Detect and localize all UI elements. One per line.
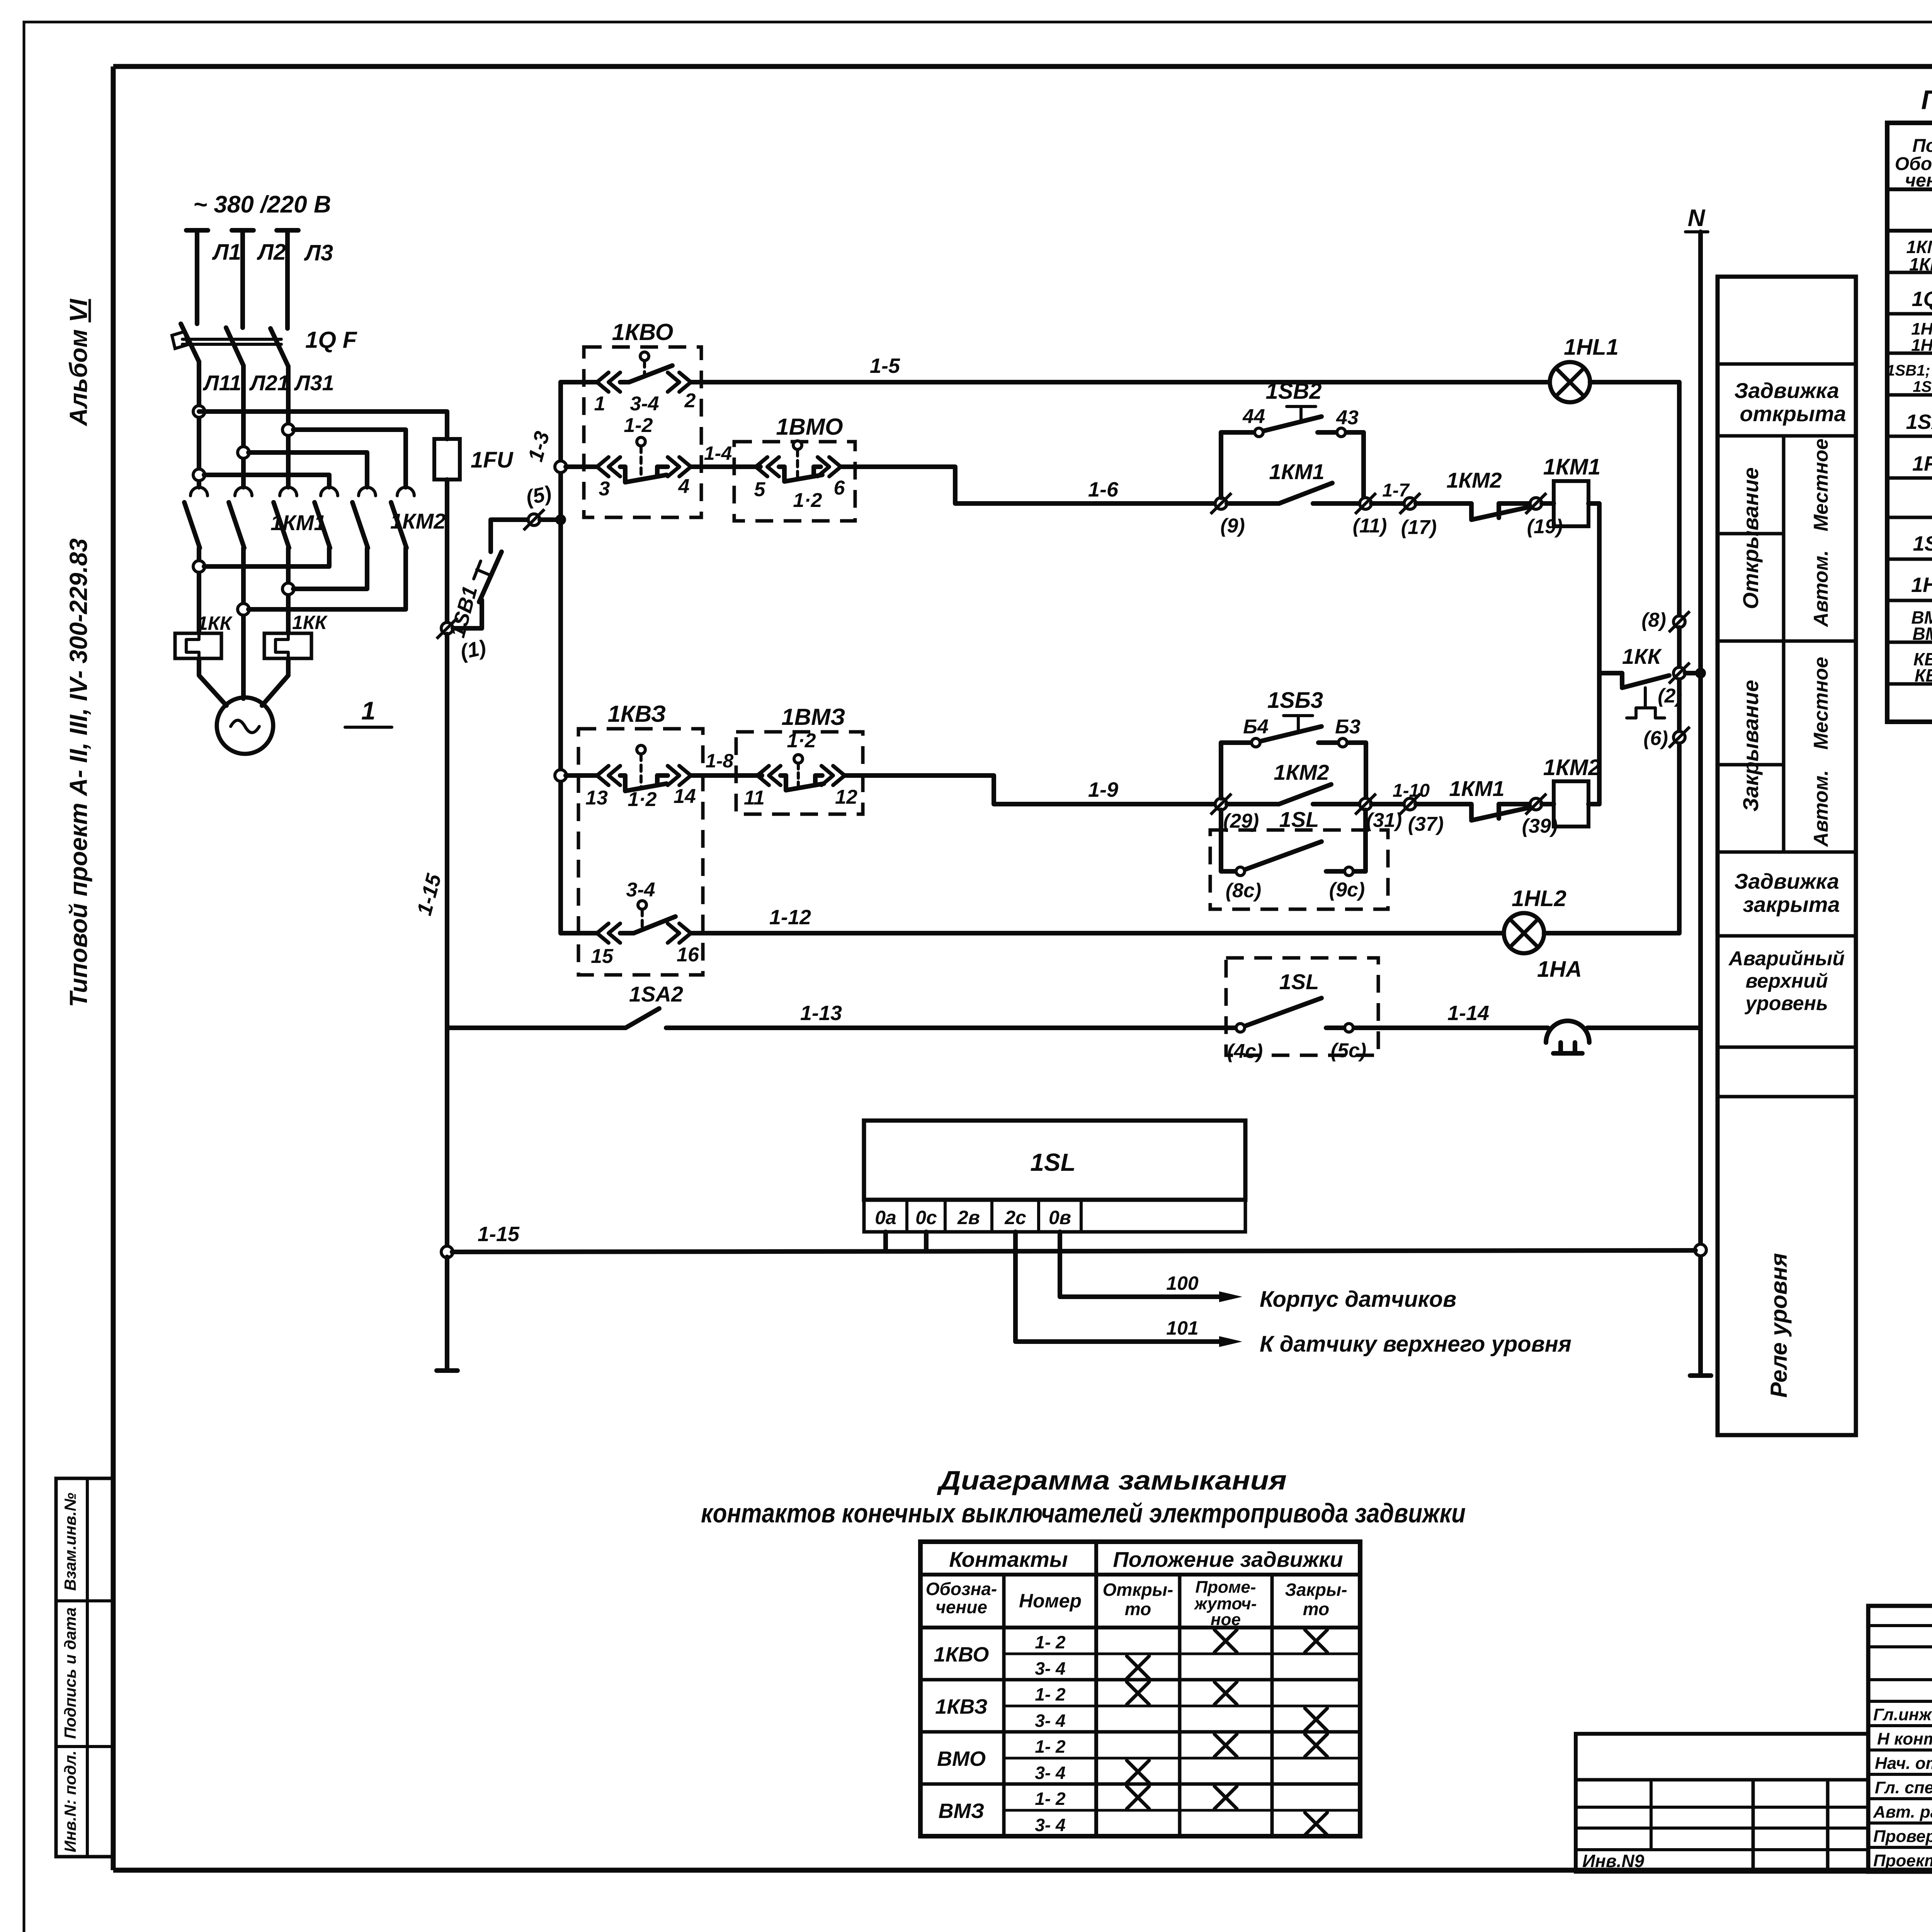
terminal (31) [1355, 794, 1402, 832]
svg-text:чение: чение [935, 1597, 987, 1617]
N bus [1685, 205, 1711, 1376]
svg-text:N: N [1688, 205, 1706, 231]
terminal (17) [1400, 493, 1437, 539]
signature table [1868, 1606, 1932, 1872]
terminal (9) [1211, 493, 1245, 537]
svg-text:Гл.инж.пр.: Гл.инж.пр. [1873, 1705, 1932, 1724]
svg-text:12: 12 [835, 786, 857, 808]
wire to fuse [199, 412, 447, 439]
svg-text:16: 16 [677, 944, 699, 966]
svg-text:КВЗ: КВЗ [1915, 665, 1932, 685]
svg-text:Нач. отд.: Нач. отд. [1875, 1754, 1932, 1773]
thermal relay 1KK element A [175, 612, 233, 658]
svg-text:открыта: открыта [1740, 401, 1846, 426]
svg-text:1-9: 1-9 [1088, 778, 1118, 801]
svg-text:(8): (8) [1641, 609, 1666, 631]
svg-text:(9): (9) [1220, 515, 1245, 537]
terminal (8) [1641, 609, 1690, 632]
node merge pole5 [282, 583, 294, 595]
svg-text:Л31: Л31 [294, 371, 334, 395]
svg-text:6: 6 [834, 477, 845, 499]
svg-text:1FU: 1FU [1912, 452, 1932, 475]
wire 1-15 left riser [445, 634, 449, 1252]
svg-text:Контакты: Контакты [949, 1547, 1068, 1571]
svg-text:1SL: 1SL [1030, 1148, 1075, 1176]
svg-text:Инв.N9: Инв.N9 [1582, 1851, 1645, 1871]
svg-text:Открывание: Открывание [1738, 467, 1763, 609]
svg-text:1КМ1: 1КМ1 [1449, 776, 1504, 801]
svg-text:1КМ2: 1КМ2 [1909, 254, 1932, 274]
contact 1KVZ 3-4 [561, 879, 699, 968]
svg-text:1SБ3: 1SБ3 [1913, 378, 1932, 395]
svg-text:Диаграмма замыкания: Диаграмма замыкания [937, 1465, 1287, 1495]
svg-text:то: то [1125, 1599, 1151, 1619]
limit switch 1KVZ box [578, 701, 703, 975]
wire control bus [558, 382, 563, 933]
node L1 fuse tap [193, 406, 205, 417]
svg-text:то: то [1303, 1599, 1329, 1619]
node L2 crossover tap [238, 447, 249, 458]
wire terminal 0a stub [883, 1232, 888, 1251]
svg-text:3- 4: 3- 4 [1035, 1763, 1065, 1783]
svg-text:1- 2: 1- 2 [1035, 1789, 1066, 1809]
svg-text:15: 15 [591, 945, 614, 968]
svg-text:1НL1: 1НL1 [1564, 335, 1619, 360]
wire 1-5 top rail [777, 354, 1550, 382]
contact 1KVZ 1-2 [566, 745, 696, 811]
svg-text:Аварийный: Аварийный [1728, 947, 1845, 970]
svg-text:1·2: 1·2 [793, 489, 822, 512]
svg-text:1КВО: 1КВО [934, 1643, 989, 1666]
svg-text:1-6: 1-6 [1088, 478, 1119, 501]
wire 1-14 label [1447, 1002, 1489, 1025]
wire 101 upper level sensor [1015, 1232, 1571, 1357]
level relay contact 1SL box [1210, 807, 1388, 909]
svg-text:Автом.: Автом. [1810, 770, 1832, 848]
wire label 1-15 vertical [413, 871, 446, 918]
microswitch 1VMZ box [736, 704, 863, 814]
svg-text:44: 44 [1242, 405, 1265, 428]
wire phase L1 drop [195, 231, 199, 324]
svg-text:(9с): (9с) [1329, 879, 1365, 901]
svg-text:2: 2 [684, 389, 696, 412]
svg-text:1QF: 1QF [1912, 287, 1932, 311]
svg-text:0с: 0с [915, 1207, 937, 1228]
svg-text:1SВ2: 1SВ2 [1265, 379, 1321, 404]
svg-text:2с: 2с [1004, 1207, 1026, 1228]
svg-text:ВМЗ: ВМЗ [1912, 624, 1932, 644]
svg-text:1КК: 1КК [292, 612, 328, 633]
svg-text:Б3: Б3 [1335, 716, 1361, 738]
contact 1KM1 break [1416, 776, 1530, 820]
wire lamp2 to riser [1544, 931, 1679, 935]
svg-text:Л21: Л21 [249, 371, 289, 395]
svg-text:1НL2: 1НL2 [1512, 886, 1566, 911]
svg-text:Номер: Номер [1019, 1590, 1082, 1612]
node bus feed [555, 514, 566, 525]
wire to bus [540, 517, 561, 522]
terminal (19) [1526, 493, 1563, 538]
wire KM2 pole5 return [293, 548, 367, 589]
wire 1-4 [691, 442, 760, 467]
table title [1921, 85, 1932, 115]
wire L11 drop [197, 362, 201, 487]
contact 1KM2 aux [1227, 760, 1360, 804]
svg-text:1·2: 1·2 [787, 730, 816, 752]
svg-text:Закры-: Закры- [1285, 1580, 1347, 1600]
node merge pole6 [238, 604, 249, 615]
CLOSURE DIAGRAM TABLE [701, 1465, 1466, 1836]
svg-text:Альбом VI: Альбом VI [65, 299, 92, 427]
wire lamp riser mid [1677, 628, 1682, 933]
svg-text:Л11: Л11 [202, 371, 241, 395]
node rung3 tap [555, 770, 566, 781]
contact 1KM2 break [1416, 468, 1530, 520]
svg-text:4: 4 [678, 475, 690, 498]
svg-text:Л1: Л1 [212, 240, 241, 265]
svg-text:(17): (17) [1401, 516, 1437, 539]
svg-text:(11): (11) [1353, 515, 1387, 537]
svg-text:11: 11 [744, 787, 765, 809]
svg-text:1КМ2: 1КМ2 [390, 509, 446, 533]
margin stamp boxes [56, 1478, 113, 1857]
svg-text:Обозна-: Обозна- [926, 1579, 997, 1599]
svg-text:~ 380 /220 В: ~ 380 /220 В [193, 191, 331, 218]
vertical margin captions [65, 299, 92, 1007]
svg-text:Проме-: Проме- [1195, 1578, 1256, 1597]
wire coil return riser [1588, 503, 1599, 804]
svg-text:1-2: 1-2 [624, 414, 653, 437]
svg-text:Местное: Местное [1810, 657, 1832, 750]
svg-text:(2): (2) [1658, 685, 1682, 707]
wire lamp to corner [1590, 382, 1679, 616]
level relay contact 1SL alarm box [1226, 958, 1378, 1055]
motor M [217, 697, 273, 754]
svg-text:0в: 0в [1049, 1207, 1071, 1228]
ROW LABEL STRIP [1718, 277, 1856, 1435]
svg-text:Перечень элементов принципиа: Перечень элементов принципиальной схемы. [1921, 85, 1932, 115]
svg-text:(8с): (8с) [1226, 879, 1261, 902]
terminal (37) [1400, 794, 1444, 835]
svg-text:Автом.: Автом. [1810, 550, 1832, 628]
wire heater to motor [199, 658, 288, 706]
svg-text:1SB1; 1SB2,: 1SB1; 1SB2, [1886, 362, 1932, 379]
svg-text:3- 4: 3- 4 [1035, 1658, 1065, 1679]
terminal (29) [1211, 794, 1259, 832]
svg-text:Проверил: Проверил [1873, 1827, 1932, 1846]
svg-text:3-4: 3-4 [626, 879, 655, 901]
wire L31 drop [286, 366, 291, 487]
svg-text:Гл. спец.: Гл. спец. [1875, 1778, 1932, 1797]
wire phase L2 drop [240, 231, 245, 328]
supply label 380/220V [193, 191, 331, 218]
svg-text:1КК: 1КК [1622, 644, 1662, 668]
svg-text:1-8: 1-8 [706, 750, 733, 772]
svg-text:1-14: 1-14 [1447, 1002, 1489, 1025]
svg-text:1SА2: 1SА2 [629, 982, 683, 1006]
svg-text:1- 2: 1- 2 [1035, 1684, 1066, 1704]
wire L2 to KM2 pole 5 [248, 452, 367, 487]
svg-text:5: 5 [754, 478, 766, 501]
thermal relay 1KK element B [264, 612, 328, 658]
node labels L11 L21 L31 [202, 371, 334, 395]
svg-text:Задвижка: Задвижка [1734, 378, 1839, 403]
contactor 1KM2 poles [315, 487, 446, 548]
wire left riser tail [437, 1257, 457, 1371]
terminal (11) [1353, 493, 1387, 537]
wire 1-9 [845, 776, 1216, 804]
svg-text:3: 3 [599, 478, 610, 500]
svg-text:1-13: 1-13 [800, 1002, 842, 1025]
table grid [1887, 123, 1932, 722]
svg-text:Б4: Б4 [1243, 716, 1269, 738]
wire 1-8 [691, 750, 762, 776]
svg-text:1- 2: 1- 2 [1035, 1736, 1066, 1757]
node merge pole4 [193, 561, 205, 572]
bell 1HA [1537, 957, 1701, 1053]
svg-text:(6): (6) [1643, 727, 1668, 750]
terminal (5) [524, 481, 554, 530]
svg-text:1КМ2: 1КМ2 [1446, 468, 1502, 492]
fuse 1FU [434, 439, 514, 622]
svg-text:1SL: 1SL [1913, 532, 1932, 555]
breaker 1QF [172, 324, 357, 366]
contactor 1KM1 poles [184, 487, 326, 548]
svg-text:1КВЗ: 1КВЗ [608, 701, 666, 727]
svg-text:1SБ3: 1SБ3 [1267, 688, 1323, 713]
svg-text:1-15: 1-15 [478, 1223, 520, 1246]
svg-text:1- 2: 1- 2 [1035, 1632, 1066, 1652]
node rail to bus [1695, 1244, 1706, 1256]
level sensor unit 1SL [864, 1121, 1245, 1232]
contact 1SL alarm [1227, 998, 1548, 1063]
node rung2 tap [555, 461, 566, 473]
phase terminal ticks [186, 228, 298, 233]
svg-text:1-5: 1-5 [870, 354, 900, 378]
svg-text:0а: 0а [875, 1207, 896, 1228]
svg-text:Задвижка: Задвижка [1734, 869, 1839, 893]
svg-text:1·2: 1·2 [628, 788, 656, 811]
svg-text:ВМО: ВМО [937, 1747, 986, 1770]
wire phase L3 drop [285, 231, 290, 328]
wire L21 drop [241, 366, 246, 487]
svg-text:Типовой проект А- II, III, I: Типовой проект А- II, III, IV- 300-229.8… [65, 538, 92, 1007]
wire L1 to KM2 pole 4 [204, 475, 329, 487]
limit switch 1KVO box [584, 319, 701, 517]
svg-text:Подпись и дата: Подпись и дата [61, 1607, 79, 1739]
svg-text:101: 101 [1166, 1317, 1198, 1339]
svg-text:1ВМО: 1ВМО [776, 414, 843, 440]
pushbutton 1SB3 branch [1221, 688, 1366, 798]
svg-text:Взам.инв.№: Взам.инв.№ [61, 1493, 79, 1591]
pushbutton 1SB1 [446, 520, 529, 640]
svg-text:верхний: верхний [1745, 970, 1828, 992]
wire 1-7 [1371, 480, 1410, 503]
motor label 1 [345, 696, 392, 727]
wire 1-12 rail [691, 906, 1504, 933]
svg-text:Н контр: Н контр [1877, 1730, 1932, 1748]
svg-text:1SL: 1SL [1279, 807, 1319, 832]
svg-text:Закрывание: Закрывание [1738, 680, 1763, 812]
svg-text:1НА: 1НА [1911, 573, 1932, 597]
wire 1-6 [841, 467, 1216, 503]
thermal contact 1KK [1599, 644, 1669, 718]
svg-text:ное: ное [1211, 1610, 1241, 1629]
svg-text:1НА: 1НА [1537, 957, 1582, 982]
wire label 1-3 [524, 429, 554, 464]
svg-text:Поз.: Поз. [1912, 136, 1932, 156]
terminal (39) [1522, 794, 1558, 837]
svg-text:закрыта: закрыта [1743, 892, 1840, 917]
wire to N bus [1685, 671, 1701, 675]
svg-text:Авт. разд.: Авт. разд. [1873, 1803, 1932, 1821]
svg-text:1Q F: 1Q F [305, 327, 357, 353]
svg-text:2в: 2в [957, 1207, 980, 1228]
svg-text:43: 43 [1336, 406, 1359, 429]
svg-text:(5с): (5с) [1331, 1039, 1366, 1062]
wire L3 to KM2 pole 6 [293, 430, 406, 487]
contact 1VMO 1-2 [754, 441, 845, 512]
terminal (2) [1658, 663, 1690, 707]
svg-text:(37): (37) [1408, 813, 1444, 835]
svg-text:Л2: Л2 [257, 240, 286, 265]
svg-text:1КК: 1КК [197, 612, 233, 634]
svg-text:ВМЗ: ВМЗ [939, 1799, 985, 1823]
svg-text:1-12: 1-12 [769, 906, 811, 929]
svg-text:100: 100 [1166, 1272, 1199, 1294]
svg-text:Откры-: Откры- [1103, 1580, 1173, 1600]
svg-text:1FU: 1FU [471, 447, 514, 473]
node labels L1 L2 L3 [212, 240, 333, 265]
lamp 1HL1 [1550, 335, 1619, 402]
svg-text:1КМ2: 1КМ2 [1274, 760, 1329, 784]
svg-text:1: 1 [361, 696, 376, 725]
svg-text:3- 4: 3- 4 [1035, 1815, 1065, 1835]
svg-text:3-4: 3-4 [630, 393, 659, 415]
wire KM2 pole6 return [248, 548, 406, 609]
svg-text:Положение задвижки: Положение задвижки [1113, 1547, 1343, 1571]
node L3 crossover tap [282, 424, 294, 435]
svg-text:13: 13 [585, 787, 608, 809]
svg-text:чение: чение [1905, 170, 1932, 191]
wire 100 sensor body [1060, 1232, 1456, 1312]
terminal (1) [437, 618, 488, 664]
svg-text:1SL: 1SL [1279, 969, 1319, 994]
svg-text:1КМ1: 1КМ1 [1269, 459, 1324, 484]
coil 1KM1 [1542, 454, 1600, 526]
wire KM1 pole outputs [199, 548, 288, 699]
svg-text:К датчику верхнего уровня: К датчику верхнего уровня [1260, 1332, 1571, 1357]
contact 1KM1 aux [1227, 459, 1360, 503]
svg-text:1КМ1: 1КМ1 [1543, 454, 1600, 480]
svg-text:Л3: Л3 [304, 240, 333, 265]
wire 1-10 [1371, 781, 1430, 804]
svg-text:1: 1 [594, 393, 605, 415]
svg-text:Инв.N: подл.: Инв.N: подл. [61, 1750, 79, 1852]
svg-text:контактов конечных выключате: контактов конечных выключателей электроп… [701, 1498, 1466, 1528]
svg-text:Реле уровня: Реле уровня [1766, 1253, 1792, 1398]
svg-text:1-4: 1-4 [704, 442, 732, 464]
terminal (6) [1643, 727, 1690, 750]
wire terminal 0c stub [924, 1232, 929, 1251]
svg-text:(31): (31) [1366, 809, 1402, 832]
svg-text:Местное: Местное [1810, 439, 1832, 531]
lamp 1HL2 [1504, 886, 1566, 953]
contact 1KVO 3-4 [561, 352, 777, 415]
node L1 crossover tap [193, 469, 205, 481]
svg-text:1HL2: 1HL2 [1911, 336, 1932, 355]
toggle 1SA2 rung [447, 982, 1235, 1028]
table rows [1886, 199, 1932, 710]
contact 1VMZ 1-2 [744, 730, 857, 809]
pushbutton 1SB2 branch [1221, 379, 1364, 498]
left extension table [1576, 1734, 1868, 1872]
svg-text:Корпус датчиков: Корпус датчиков [1260, 1287, 1456, 1312]
svg-text:1SA2: 1SA2 [1906, 410, 1932, 434]
contact 1SL self-hold [1221, 810, 1366, 902]
contact 1KVO 1-2 [566, 414, 691, 500]
bottom rail 1-15 [441, 1223, 1696, 1258]
svg-text:Проектир.: Проектир. [1873, 1851, 1932, 1870]
svg-text:1КВЗ: 1КВЗ [935, 1695, 988, 1718]
node N bus junction [1695, 668, 1706, 679]
svg-text:1КМ2: 1КМ2 [1543, 755, 1600, 780]
svg-text:уровень: уровень [1744, 992, 1828, 1015]
wire KM2 pole4 return [204, 548, 329, 566]
svg-text:1КВО: 1КВО [612, 319, 673, 345]
svg-text:3- 4: 3- 4 [1035, 1711, 1065, 1731]
coil 1KM2 [1542, 755, 1600, 827]
svg-text:(4с): (4с) [1227, 1040, 1263, 1063]
svg-text:1ВМЗ: 1ВМЗ [781, 704, 845, 730]
microswitch 1VMO box [734, 414, 855, 521]
svg-text:14: 14 [673, 785, 696, 808]
table header texts [1895, 136, 1932, 191]
